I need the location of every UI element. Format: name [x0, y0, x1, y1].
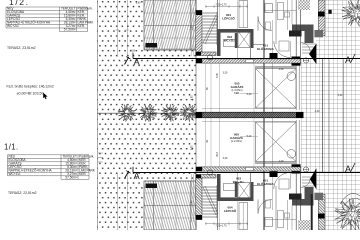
svg-text:2,60: 2,60: [136, 3, 141, 5]
svg-text:A: A: [345, 164, 351, 174]
hall door swing: [258, 17, 272, 31]
terrace side wall stub: [196, 52, 216, 56]
interior partition lines: [217, 201, 219, 230]
shaft/cupboard: [239, 203, 248, 230]
svg-text:3,30: 3,30: [216, 73, 219, 78]
entry walk tiles upper-right: [326, 0, 360, 58]
svg-text:WC+ZU.: WC+ZU.: [224, 39, 236, 43]
stair/wc wall: [217, 174, 221, 201]
left dim chains: [191, 8, 193, 56]
entry porch hatched pier: [319, 195, 326, 231]
svg-text:3,30: 3,30: [216, 152, 219, 157]
svg-text:KER.: KER.: [79, 172, 87, 176]
svg-text:±0,00=Bf.103,50: ±0,00=Bf.103,50: [17, 91, 44, 95]
building outline long verticals: [195, 0, 197, 230]
svg-text:3,65: 3,65: [191, 25, 193, 30]
front interior wall band: [202, 59, 301, 63]
porch steps: [302, 44, 316, 53]
grid mark: [328, 10, 331, 14]
hedge shrub 4: [180, 104, 198, 121]
hall door swing: [258, 200, 272, 214]
section line A-A upper: [133, 58, 360, 60]
left outer wall hatched: [196, 178, 202, 220]
hedge shrub 3: [161, 104, 179, 121]
svg-text:WC+ZU.: WC+ZU.: [9, 172, 21, 176]
svg-text:1,20: 1,20: [279, 68, 284, 71]
svg-text:LÉPCSŐ: LÉPCSŐ: [224, 208, 237, 213]
svg-text:1/1.: 1/1.: [4, 143, 19, 152]
stair treads: [203, 12, 219, 45]
tree lower-right: [311, 194, 313, 230]
svg-text:A: A: [134, 171, 140, 181]
hedge shrub 1: [118, 104, 136, 121]
section line A-A lower: [133, 172, 360, 174]
table in right room: [279, 179, 289, 189]
terrace bottom dim line: [144, 180, 196, 182]
shower box: [238, 31, 250, 48]
garden stipple field: [97, 0, 196, 230]
terrace lower (pergola hatch): [144, 181, 196, 230]
svg-text:TERASZ: 23,51m2: TERASZ: 23,51m2: [7, 46, 36, 50]
porch steps: [302, 177, 316, 186]
section marker tick lower-left: [125, 171, 129, 179]
svg-text:57,50m²: 57,50m²: [64, 28, 76, 32]
garden guide line x117: [116, 0, 118, 57]
svg-text:7,25=1,75: 7,25=1,75: [215, 225, 227, 228]
svg-text:5,40: 5,40: [247, 135, 252, 138]
misc ticks in garage: [202, 108, 296, 110]
svg-text:Fszt. bruttó beépítés: 146,12m: Fszt. bruttó beépítés: 146,12m2: [7, 85, 54, 89]
band end black: [196, 59, 202, 64]
svg-text:WC+ZU.: WC+ZU.: [233, 180, 245, 184]
svg-text:3,65: 3,65: [191, 200, 193, 205]
kitchen furniture: [265, 217, 273, 226]
axis line in driveway: [305, 118, 307, 172]
dimension row top: [205, 5, 248, 7]
front door swing into hall: [274, 173, 291, 189]
svg-text:7,25=1,75: 7,25=1,75: [215, 3, 227, 6]
garage stall X box: [256, 122, 297, 162]
axis circle symbol: [303, 167, 308, 172]
section marker tick upper-left: [125, 57, 129, 65]
left dim chains: [191, 174, 193, 222]
stair treads: [203, 185, 219, 218]
mouse cursor arrow: [43, 93, 47, 99]
dimension row top: [205, 223, 248, 225]
svg-text:3,40: 3,40: [315, 110, 320, 113]
left outer wall hatched: [196, 10, 202, 52]
svg-text:A: A: [134, 57, 140, 67]
svg-text:5,85: 5,85: [191, 145, 193, 150]
axis line in driveway: [305, 58, 307, 112]
hall/kitchen extra lines: [264, 219, 296, 221]
garage dim lines: [205, 63, 207, 112]
garden guide line x127: [126, 0, 128, 57]
svg-text:A: A: [345, 55, 351, 65]
pier above front wall: [270, 171, 278, 177]
garage stall X box: [256, 69, 297, 109]
svg-text:WC+ZU.: WC+ZU.: [7, 24, 19, 28]
driveway tile paving: [301, 58, 360, 172]
svg-text:5,40: 5,40: [247, 93, 252, 96]
entry door swing: [301, 43, 311, 53]
garden dim dashes: [98, 153, 103, 162]
garage door (right wall opening): [295, 120, 297, 164]
hall/kitchen extra lines: [264, 10, 296, 12]
plot boundary line: [96, 0, 98, 230]
axis circle symbol: [303, 58, 308, 63]
kitchen furniture: [265, 4, 273, 13]
svg-text:3,30: 3,30: [223, 72, 228, 75]
garage lintel line: [255, 66, 296, 68]
room table upper: [6, 7, 88, 32]
terrace bottom dim line: [144, 48, 196, 50]
terrace upper (pergola hatch): [144, 0, 196, 50]
front interior wall band: [202, 167, 301, 171]
right wall black corner: [292, 164, 301, 173]
svg-text:2,05: 2,05: [131, 51, 136, 53]
stair/wc wall: [217, 29, 221, 56]
right wall of unit: [295, 0, 297, 57]
front door swing into hall: [274, 41, 291, 57]
wc fixtures: [224, 184, 237, 191]
band end black: [196, 167, 202, 172]
shaft/cupboard: [239, 1, 248, 28]
party wall between units: [196, 112, 303, 118]
small checker patch: [298, 0, 310, 10]
room table lower: [8, 155, 90, 180]
svg-text:57,50m²: 57,50m²: [65, 176, 77, 180]
svg-text:ELŐSZOBA: ELŐSZOBA: [257, 181, 275, 186]
garage column circle: [287, 150, 296, 159]
svg-text:GARÁZS: GARÁZS: [230, 135, 243, 140]
section arrow upper (black): [309, 44, 316, 65]
right wall black corner: [292, 57, 301, 66]
wc fixtures: [224, 40, 237, 47]
svg-text:KER.: KER.: [234, 91, 240, 95]
section arrow lower (black): [310, 168, 316, 189]
paving strong verticals: [322, 58, 324, 172]
porch gray block: [314, 193, 323, 200]
svg-text:ELŐSZOBA: ELŐSZOBA: [257, 46, 275, 51]
garage door (right wall opening): [295, 66, 297, 110]
garage column circle: [287, 72, 296, 81]
svg-text:KER.: KER.: [78, 24, 86, 28]
porch gray block: [314, 30, 323, 37]
hedge shrub 2: [139, 104, 157, 121]
small checker patch: [298, 220, 310, 230]
entry porch hatched pier: [319, 0, 326, 36]
entry door swing: [301, 178, 311, 188]
svg-text:1,20: 1,20: [279, 160, 284, 163]
svg-text:3,30: 3,30: [223, 157, 228, 160]
hedge line on plot axis: [97, 112, 196, 114]
tree upper-right: [342, 0, 360, 26]
terrace side wall stub: [196, 175, 216, 179]
svg-text:LÉPCSŐ: LÉPCSŐ: [222, 16, 235, 21]
entry hall wall dark: [292, 199, 314, 206]
svg-text:5,85: 5,85: [191, 95, 193, 100]
svg-text:TERASZ: 22,51m2: TERASZ: 22,51m2: [8, 191, 37, 195]
svg-text:3,40: 3,40: [338, 94, 343, 97]
entry walk tiles lower-right: [326, 172, 360, 230]
table in right room: [279, 41, 289, 51]
entry hall wall dark: [292, 25, 314, 32]
right wall of unit: [295, 174, 297, 231]
interior partition lines: [217, 0, 219, 29]
shower box: [238, 183, 250, 200]
garage dim lines: [205, 118, 207, 167]
pier above front wall: [270, 53, 278, 59]
misc ticks in garage: [202, 121, 296, 123]
garage lintel line: [255, 163, 296, 165]
